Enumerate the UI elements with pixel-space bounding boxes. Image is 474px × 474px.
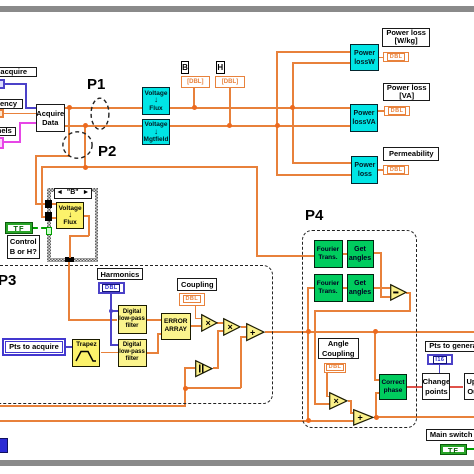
case selector tunnel green: [46, 227, 52, 236]
Power lossW DBL indicator: [383, 52, 409, 62]
wire case output to filter1: [68, 319, 117, 321]
wire TF to case dashed: [33, 227, 46, 229]
P4 dashed region: [302, 230, 417, 428]
top toolbar gray bar: [0, 6, 474, 12]
blue icon bottom left (cut): [0, 438, 8, 453]
wire GetAngles1 out: [374, 252, 383, 254]
Control B or H? label: [7, 235, 40, 259]
Power lossVA DBL indicator: [384, 106, 410, 116]
wire B bus (flux): [65, 107, 350, 109]
wire branch to P3 add input2: [184, 387, 241, 389]
wire angle coupling down: [326, 373, 328, 397]
case tunnel 2: [45, 212, 52, 221]
wire tunnel1 to icon: [52, 203, 57, 205]
wire v2 to Power loss input1: [292, 162, 352, 164]
text P1: [87, 76, 105, 93]
wire ERROR ARRAY out: [191, 325, 201, 327]
Fourier Trans 2: [314, 274, 343, 302]
wire correct phase in1 riser: [374, 331, 376, 381]
Coupling DBL control: [179, 293, 205, 305]
bottom scrollbar gray bar: [0, 460, 474, 466]
svg-text:×: ×: [334, 396, 339, 406]
wire frequency into acquire data: [4, 113, 36, 115]
Coupling label: [177, 278, 217, 291]
junction phase bus x375: [373, 329, 378, 334]
wire into Fourier1: [256, 255, 314, 257]
control pts icon (cut): [0, 79, 5, 89]
wire case input A horizontal: [35, 155, 69, 157]
svg-text:+: +: [250, 328, 255, 338]
wire filter2 riser: [157, 333, 159, 354]
H label: [216, 61, 225, 74]
junction H bus at x85: [83, 123, 88, 128]
svg-text:×: ×: [205, 318, 210, 328]
wire pts to acquire big to trapez: [66, 346, 74, 348]
wire into correct phase in1: [374, 379, 380, 381]
wire channels up: [19, 122, 21, 143]
wire Power lossVA to DBL: [378, 110, 384, 112]
junction bottom bus x308: [306, 418, 311, 423]
wire subtract left: [314, 310, 410, 312]
Change points box: [422, 373, 450, 400]
Pts to generate label (cut): [425, 341, 474, 353]
wire into ERROR ARRAY: [157, 333, 161, 335]
wire into Fourier2: [307, 287, 314, 289]
wire case input A vertical from B bus: [68, 108, 70, 157]
wire case input B down: [41, 166, 43, 217]
Angle Coupling DBL control: [324, 363, 346, 373]
wire H bus (field): [65, 125, 350, 127]
wire pts into acquire data: [25, 107, 37, 109]
wire coupling to multiply1: [195, 318, 201, 320]
Voltage to Mgtfield VI: [142, 119, 171, 145]
wire icon out down2: [69, 235, 71, 258]
Power lossVA VI: [350, 104, 379, 133]
wire harmonics to filter1: [110, 310, 118, 312]
junction B bus at x69: [67, 105, 72, 110]
triangle subtract P4: [390, 284, 407, 301]
wire vertical v2 B branch: [292, 62, 294, 163]
wire main switch TF dash: [467, 448, 474, 450]
wire P4 add out bus: [374, 416, 474, 418]
Power lossW VI: [350, 44, 379, 71]
wire channels into acquire data: [19, 122, 37, 124]
text P3: [0, 272, 16, 289]
wire subtract out: [406, 292, 410, 294]
wire filter2 out: [147, 352, 160, 354]
control frequency icon (cut): [0, 109, 4, 118]
wire subtract down2: [314, 310, 316, 405]
wire icon out left: [69, 235, 90, 237]
wire change points to update: [450, 386, 463, 388]
wire P4 multiply jog: [350, 400, 352, 415]
triangle absolute value: [195, 360, 213, 378]
wire case input A to tunnel: [35, 203, 46, 205]
H [DBL] indicator: [215, 76, 244, 88]
Harmonics DBL control: [98, 282, 125, 294]
wire trapez out: [101, 352, 118, 354]
wire GetAngles2 to subtract: [374, 287, 390, 289]
case structure border: [47, 188, 98, 262]
wire vertical v1 H branch: [276, 51, 278, 176]
junction H DBL riser: [227, 123, 232, 128]
wire phase bus: [265, 331, 474, 333]
case bottom tunnel: [65, 257, 74, 262]
junction v2 on B bus: [290, 105, 295, 110]
junction long horizontal: [83, 165, 88, 170]
control channels label (cut): [0, 127, 16, 137]
Voltage to Flux VI: [142, 87, 171, 115]
wire Power lossW to DBL: [379, 57, 384, 59]
wire long horizontal to Fourier: [41, 166, 257, 168]
wire case output down: [68, 261, 70, 321]
Angle Coupling label: [318, 338, 359, 359]
wire down to Fourier1: [256, 166, 258, 256]
wire I16 down: [439, 365, 441, 374]
control frequency label (cut): [0, 99, 23, 109]
wire pts-to-acquire control: [5, 83, 27, 85]
wire tunnel2 to icon: [52, 217, 57, 219]
control Pts to acquire label (cut): [0, 67, 37, 78]
Permeability label: [383, 147, 439, 161]
wire v2 to Power lossW input2: [292, 62, 350, 64]
ellipse P1 dashed: [90, 97, 110, 131]
wire GetAngles1 riser: [380, 252, 382, 298]
Digital low-pass filter 2: [118, 339, 147, 367]
wire correct phase in2 riser: [375, 392, 377, 417]
svg-text:×: ×: [227, 322, 232, 332]
wire riser to H [DBL] indicator: [229, 87, 231, 126]
B [DBL] indicator: [181, 76, 211, 88]
Power loss VI: [351, 156, 378, 185]
Digital low-pass filter 1: [118, 305, 147, 334]
junction harmonics: [109, 309, 113, 313]
wire v1 to Power loss input2: [276, 174, 351, 176]
wire into P3 add: [240, 336, 247, 338]
Power loss [W/kg] label: [382, 28, 430, 48]
wire case input B to tunnel: [41, 216, 47, 218]
wire multiply1 out: [217, 322, 223, 324]
wire riser to B [DBL] indicator: [193, 87, 195, 108]
Harmonics label: [97, 268, 144, 280]
P3 dashed region: [0, 265, 273, 404]
Correct phase VI: [379, 374, 407, 401]
Power loss DBL indicator: [383, 165, 409, 175]
wire abs input: [184, 367, 195, 369]
Trapez VI: [72, 339, 100, 367]
wire filter1 out: [147, 319, 162, 321]
wire multiply2 out: [241, 326, 247, 328]
junction abs branch: [183, 386, 188, 391]
wire into P4 multiply top: [326, 396, 329, 398]
wire icon out down: [88, 215, 90, 236]
text P4: [305, 207, 323, 224]
yellow Voltage Flux VI icon in case: [56, 202, 84, 230]
wire Power loss to DBL: [378, 169, 383, 171]
I16 control: [427, 354, 454, 364]
wire subtract down: [409, 292, 411, 312]
wire harmonics to filter2: [110, 344, 118, 346]
svg-text:+: +: [358, 412, 363, 422]
Main switch TF control: [440, 444, 467, 456]
wire bottom feed horizontal: [0, 405, 185, 407]
Update Output box (cut): [464, 373, 474, 400]
wire Fourier2 to GetAngles2: [343, 287, 348, 289]
wire into P4 multiply: [314, 403, 330, 405]
Get angles 2: [347, 274, 374, 302]
wire coupling DBL down: [195, 306, 197, 319]
triangle add P3: [246, 323, 265, 342]
Fourier Trans 1: [314, 240, 343, 268]
triangle add P4: [353, 409, 374, 426]
wire Fourier1 to GetAngles1: [343, 253, 348, 255]
wire harmonics down: [110, 294, 112, 345]
wire correct phase to change points: [407, 386, 423, 388]
Acquire Data box: [36, 104, 66, 132]
wire icon out: [84, 215, 90, 217]
wire into multiply2: [217, 330, 223, 332]
wire into correct phase in2: [375, 392, 380, 394]
junction add out bus x376: [374, 415, 379, 420]
wire channels out: [4, 141, 20, 143]
wire into subtract lower: [380, 296, 390, 298]
Pts to acquire control big: [2, 338, 65, 355]
wire riser x308: [307, 287, 309, 422]
triangle multiply1 P3: [201, 314, 218, 332]
TF control: [5, 222, 32, 234]
wire branch riser: [240, 336, 242, 389]
Main switch label (cut): [426, 429, 474, 441]
wire bottom long bus: [0, 420, 353, 422]
text P2: [98, 143, 116, 160]
Get angles 1: [347, 240, 374, 268]
wire case input B vertical from H bus: [84, 126, 86, 169]
ellipse P2 dashed: [62, 131, 93, 159]
wire P4 multiply out: [348, 400, 352, 402]
wire abs riser: [184, 367, 186, 407]
case tunnel 1: [45, 200, 52, 209]
junction phase bus x308: [306, 329, 311, 334]
junction v1 on H bus: [275, 123, 280, 128]
ERROR ARRAY box: [161, 313, 191, 341]
wire case input A down: [35, 155, 37, 205]
wire into P4 add: [350, 412, 354, 414]
triangle multiply2 P3: [223, 318, 241, 336]
junction B DBL riser: [192, 105, 197, 110]
case selector label "B": [54, 188, 93, 200]
wire v1 to Power lossW input1: [276, 51, 350, 53]
wire abs out riser: [217, 330, 219, 368]
Power loss [VA] label: [383, 83, 430, 102]
wire abs out: [213, 367, 220, 369]
control channels icon (cut): [0, 137, 4, 149]
B label: [181, 61, 190, 74]
triangle multiply P4: [329, 392, 348, 410]
wire pts control down: [25, 83, 27, 110]
